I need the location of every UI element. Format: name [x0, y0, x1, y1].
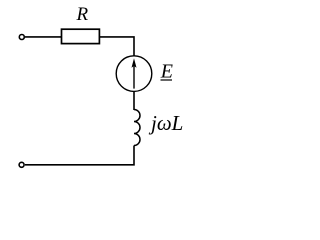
source arrowhead — [132, 58, 137, 68]
svg-text:jωL: jωL — [148, 111, 183, 135]
wire (source to inductor) — [133, 91, 135, 110]
wire (inductor to bottom-right corner, left to terminal) — [25, 146, 134, 165]
label E underline — [161, 79, 173, 81]
inductor jωL coil — [134, 110, 140, 146]
source arrow shaft — [133, 62, 135, 89]
terminal (top-left) — [19, 35, 24, 40]
resistor R — [62, 29, 100, 43]
svg-text:R: R — [76, 4, 89, 25]
wire (top, terminal to resistor) — [25, 36, 62, 38]
terminal (bottom-left) — [19, 162, 24, 167]
source U1 circle — [116, 56, 152, 92]
svg-text:E: E — [160, 60, 173, 82]
wire (resistor to top-right corner, down to source) — [99, 37, 134, 56]
